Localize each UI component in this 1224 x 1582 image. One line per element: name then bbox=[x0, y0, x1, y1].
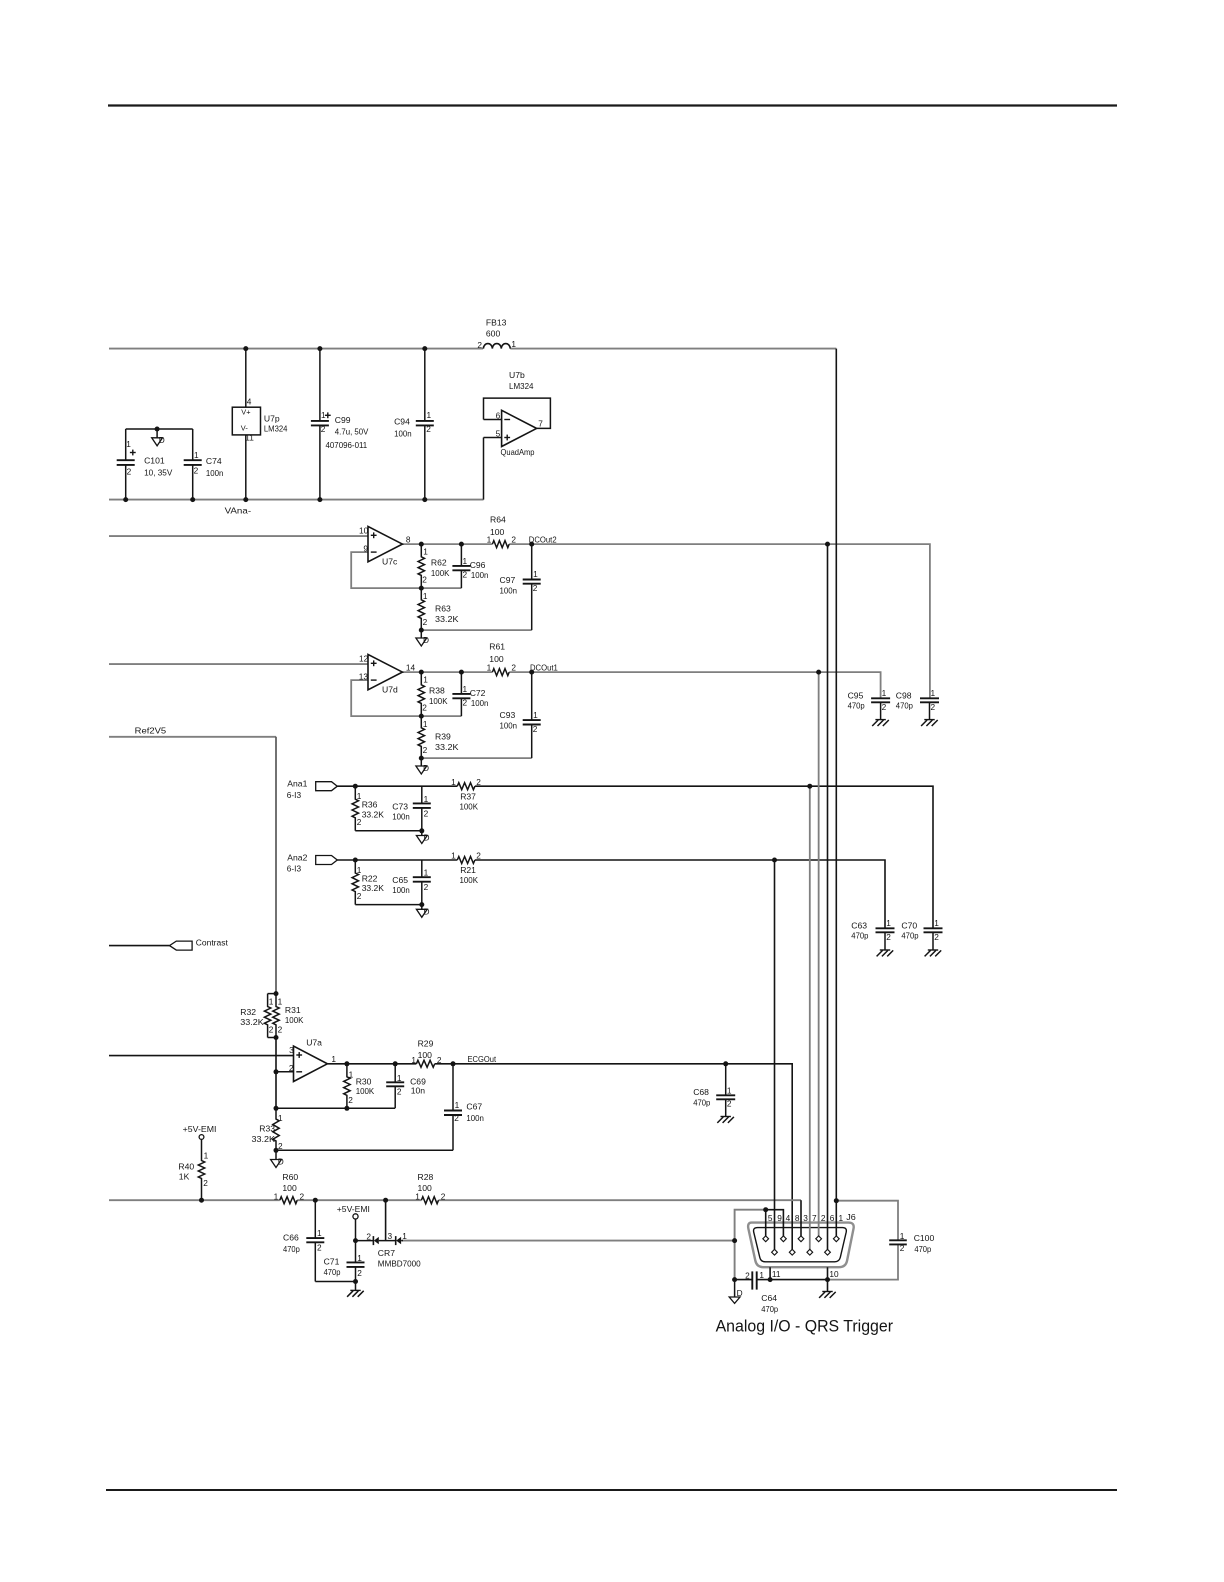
svg-text:33.2K: 33.2K bbox=[240, 1017, 264, 1027]
ground hatch pin10 bbox=[822, 1291, 832, 1293]
svg-text:C65: C65 bbox=[392, 875, 408, 885]
resistor R22 bbox=[352, 860, 358, 905]
resistor R31 bbox=[273, 994, 279, 1038]
capacitor C98 bbox=[929, 697, 931, 699]
svg-text:1: 1 bbox=[321, 410, 326, 420]
capacitor C71 bbox=[355, 1241, 357, 1263]
svg-text:1: 1 bbox=[269, 996, 274, 1006]
svg-text:2: 2 bbox=[821, 1213, 826, 1223]
svg-text:D: D bbox=[737, 1288, 743, 1298]
junction C100 branch bbox=[834, 1198, 839, 1203]
svg-text:J6: J6 bbox=[846, 1212, 856, 1222]
svg-text:1: 1 bbox=[886, 918, 891, 928]
junction D net pin5 bbox=[763, 1207, 768, 1212]
capacitor C96 bbox=[460, 544, 462, 566]
svg-text:C63: C63 bbox=[851, 920, 867, 930]
ground hatch C98 bbox=[924, 719, 934, 721]
svg-text:470p: 470p bbox=[283, 1244, 300, 1254]
svg-text:4.7u, 50V: 4.7u, 50V bbox=[335, 427, 369, 437]
power pins U7p bbox=[245, 349, 247, 408]
svg-text:QuadAmp: QuadAmp bbox=[501, 447, 535, 457]
svg-text:33.2K: 33.2K bbox=[435, 614, 459, 624]
svg-text:470p: 470p bbox=[914, 1244, 931, 1254]
wire Ana1 to pin7 bbox=[809, 786, 811, 1249]
svg-text:470p: 470p bbox=[693, 1098, 710, 1108]
svg-text:2: 2 bbox=[934, 932, 939, 942]
svg-text:1: 1 bbox=[451, 777, 456, 787]
svg-text:C94: C94 bbox=[394, 417, 410, 427]
wire R28 to pin3 bbox=[800, 1200, 802, 1236]
svg-text:U7d: U7d bbox=[382, 685, 398, 695]
svg-text:2: 2 bbox=[463, 569, 468, 579]
junction VAna C101 bbox=[123, 497, 128, 502]
svg-text:470p: 470p bbox=[848, 701, 865, 711]
svg-text:C73: C73 bbox=[392, 801, 408, 811]
svg-text:V-: V- bbox=[241, 424, 249, 433]
svg-text:Contrast: Contrast bbox=[196, 937, 229, 947]
resistor R39 bbox=[418, 716, 424, 758]
wire net D to pin4 bbox=[766, 1210, 784, 1236]
ground hatch C68 bbox=[721, 1116, 731, 1118]
svg-text:2: 2 bbox=[423, 617, 428, 627]
junction rail C99 bbox=[317, 346, 322, 351]
resistor R63 bbox=[418, 588, 424, 630]
wire CR7 to J6 bbox=[402, 1240, 735, 1242]
svg-text:8: 8 bbox=[795, 1213, 800, 1223]
svg-text:R64: R64 bbox=[490, 515, 506, 525]
ground D at R39 bbox=[420, 758, 422, 766]
svg-text:V+: V+ bbox=[241, 407, 250, 416]
svg-text:R28: R28 bbox=[418, 1172, 434, 1182]
svg-text:1: 1 bbox=[533, 569, 538, 579]
svg-text:100K: 100K bbox=[429, 696, 448, 706]
svg-text:470p: 470p bbox=[901, 931, 918, 941]
wire U7c feedback bbox=[351, 552, 461, 588]
svg-text:10: 10 bbox=[829, 1269, 839, 1279]
svg-text:1: 1 bbox=[727, 1085, 732, 1095]
svg-text:7: 7 bbox=[812, 1213, 817, 1223]
svg-text:2: 2 bbox=[300, 1191, 305, 1201]
wire pin10 stub bbox=[827, 1267, 829, 1279]
svg-text:1: 1 bbox=[204, 1151, 209, 1161]
svg-text:3: 3 bbox=[803, 1213, 808, 1223]
port Ana2 bbox=[316, 856, 338, 865]
svg-text:C72: C72 bbox=[470, 688, 486, 698]
resistor R40 bbox=[198, 1139, 204, 1200]
svg-text:2: 2 bbox=[727, 1099, 732, 1109]
junction R22 top bbox=[353, 858, 358, 863]
svg-text:D: D bbox=[424, 833, 430, 843]
capacitor C70 bbox=[932, 927, 934, 930]
svg-text:2: 2 bbox=[533, 724, 538, 734]
svg-text:Ana2: Ana2 bbox=[287, 853, 307, 863]
junction R40 bottom bbox=[199, 1198, 204, 1203]
svg-text:Ana1: Ana1 bbox=[287, 779, 307, 789]
wire U7d feedback bbox=[351, 680, 461, 716]
svg-text:2: 2 bbox=[477, 340, 482, 350]
svg-text:C99: C99 bbox=[335, 415, 351, 425]
svg-text:2: 2 bbox=[426, 424, 431, 434]
resistor R32 bbox=[268, 993, 276, 995]
resistor R38 bbox=[418, 672, 424, 716]
junction rail U7p bbox=[243, 346, 248, 351]
resistor R61 bbox=[492, 669, 509, 676]
junction R63 bottom bbox=[419, 628, 424, 633]
svg-text:R38: R38 bbox=[429, 686, 445, 696]
svg-text:1: 1 bbox=[455, 1100, 460, 1110]
svg-text:2: 2 bbox=[454, 1113, 459, 1123]
junction rail C94 bbox=[422, 346, 427, 351]
svg-text:Analog I/O - QRS Trigger: Analog I/O - QRS Trigger bbox=[716, 1317, 894, 1336]
capacitor C95 bbox=[880, 697, 882, 699]
ground hatch C70 bbox=[928, 949, 938, 951]
ground D at C101 bbox=[156, 429, 158, 438]
svg-text:1: 1 bbox=[349, 1070, 354, 1080]
wire R33-C67 link bbox=[276, 1149, 453, 1151]
svg-text:100: 100 bbox=[418, 1183, 433, 1193]
wire pin11 stub bbox=[769, 1267, 771, 1279]
wire C100 branch bbox=[836, 1201, 898, 1241]
svg-text:100n: 100n bbox=[471, 698, 489, 708]
svg-text:R32: R32 bbox=[240, 1007, 256, 1017]
svg-text:2: 2 bbox=[437, 1055, 442, 1065]
wire U7d + input bbox=[109, 663, 368, 665]
junction C97 top bbox=[529, 542, 534, 547]
wire U7a feedback bbox=[276, 1107, 395, 1109]
capacitor C66 bbox=[314, 1200, 316, 1238]
wire Ref2V5 bbox=[109, 736, 276, 738]
svg-text:11: 11 bbox=[772, 1269, 781, 1279]
svg-text:R61: R61 bbox=[489, 642, 505, 652]
op-amp U7b bbox=[484, 419, 502, 421]
svg-text:1: 1 bbox=[533, 710, 538, 720]
ground hatch C63 bbox=[880, 949, 890, 951]
svg-text:R22: R22 bbox=[362, 873, 378, 883]
svg-text:6-I3: 6-I3 bbox=[287, 864, 302, 874]
svg-text:12: 12 bbox=[359, 653, 369, 663]
junction CR7 bus bbox=[383, 1198, 388, 1203]
svg-text:100: 100 bbox=[490, 527, 505, 537]
connector J6 pins bbox=[763, 1236, 769, 1242]
svg-text:100K: 100K bbox=[460, 801, 479, 811]
svg-text:C95: C95 bbox=[848, 690, 864, 700]
svg-text:33.2K: 33.2K bbox=[362, 809, 385, 819]
wire U7c R63 bottom bbox=[421, 629, 531, 631]
svg-text:100K: 100K bbox=[356, 1086, 375, 1096]
ground D at C73 bbox=[421, 831, 423, 836]
svg-text:2: 2 bbox=[127, 466, 132, 476]
wire R36-C73 link bbox=[355, 830, 422, 832]
svg-text:R63: R63 bbox=[435, 604, 451, 614]
junction Ana1 bus bbox=[807, 784, 812, 789]
svg-text:100: 100 bbox=[418, 1050, 433, 1060]
svg-text:VAna-: VAna- bbox=[225, 506, 252, 516]
junction R36 top bbox=[353, 784, 358, 789]
svg-text:1: 1 bbox=[900, 1231, 905, 1241]
resistor R37 bbox=[457, 783, 475, 790]
svg-text:100n: 100n bbox=[392, 885, 410, 895]
svg-text:D: D bbox=[424, 906, 430, 916]
svg-text:100n: 100n bbox=[500, 585, 518, 595]
svg-text:MMBD7000: MMBD7000 bbox=[378, 1259, 421, 1269]
junction R31 bottom bbox=[274, 1035, 279, 1040]
svg-text:8: 8 bbox=[406, 534, 411, 544]
resistor R36 bbox=[352, 786, 358, 831]
svg-text:2: 2 bbox=[194, 465, 199, 475]
svg-text:U7b: U7b bbox=[509, 370, 525, 380]
svg-text:4: 4 bbox=[247, 396, 252, 406]
svg-text:10: 10 bbox=[359, 525, 369, 535]
svg-text:3: 3 bbox=[388, 1231, 393, 1241]
svg-text:1: 1 bbox=[931, 688, 936, 698]
svg-text:1: 1 bbox=[357, 1253, 362, 1263]
svg-text:9: 9 bbox=[777, 1213, 782, 1223]
junction R33 bottom bbox=[274, 1148, 279, 1153]
port Contrast bbox=[170, 941, 193, 950]
svg-text:6: 6 bbox=[830, 1213, 835, 1223]
wire net D to pin5 bbox=[765, 1210, 767, 1236]
svg-text:2: 2 bbox=[424, 882, 429, 892]
svg-text:1: 1 bbox=[274, 1191, 279, 1201]
svg-text:R30: R30 bbox=[356, 1077, 372, 1087]
svg-text:C98: C98 bbox=[896, 690, 912, 700]
svg-text:DCOut1: DCOut1 bbox=[530, 663, 558, 673]
svg-text:33.2K: 33.2K bbox=[435, 742, 459, 752]
junction VAna C94 bbox=[422, 497, 427, 502]
svg-text:D: D bbox=[423, 635, 429, 645]
capacitor C99 bbox=[319, 349, 321, 421]
svg-text:2: 2 bbox=[278, 1141, 283, 1151]
svg-text:407096-011: 407096-011 bbox=[326, 440, 368, 450]
svg-text:2: 2 bbox=[317, 1243, 322, 1253]
svg-text:C70: C70 bbox=[901, 920, 917, 930]
capacitor C65 bbox=[421, 860, 423, 877]
svg-text:1: 1 bbox=[487, 663, 492, 673]
wire +5V bus bottom bbox=[109, 1199, 280, 1201]
wire ECGOut net bbox=[327, 1063, 416, 1065]
svg-text:100: 100 bbox=[489, 654, 504, 664]
svg-text:R29: R29 bbox=[418, 1039, 434, 1049]
resistor R33 bbox=[273, 1108, 279, 1150]
svg-text:+5V-EMI: +5V-EMI bbox=[183, 1124, 217, 1134]
wire DCOut1 to pin2 bbox=[818, 672, 820, 1236]
svg-text:11: 11 bbox=[245, 433, 254, 443]
svg-text:1: 1 bbox=[423, 675, 428, 685]
junction C96 top bbox=[459, 542, 464, 547]
ground D at C65 bbox=[421, 905, 423, 910]
svg-text:100: 100 bbox=[282, 1183, 297, 1193]
svg-text:FB13: FB13 bbox=[486, 318, 507, 328]
ground D at R63 bbox=[420, 630, 422, 638]
svg-text:9: 9 bbox=[363, 543, 368, 553]
svg-text:1: 1 bbox=[126, 439, 131, 449]
svg-text:600: 600 bbox=[486, 329, 501, 339]
svg-text:C64: C64 bbox=[761, 1293, 777, 1303]
svg-text:3: 3 bbox=[289, 1045, 294, 1055]
junction CR7 D net bbox=[732, 1238, 737, 1243]
svg-text:C71: C71 bbox=[324, 1257, 340, 1267]
svg-text:1: 1 bbox=[397, 1073, 402, 1083]
svg-text:D: D bbox=[278, 1157, 284, 1167]
svg-text:2: 2 bbox=[422, 575, 427, 585]
svg-text:D: D bbox=[159, 435, 165, 445]
svg-text:C67: C67 bbox=[466, 1101, 482, 1111]
wire VAna- rail bbox=[109, 499, 484, 501]
resistor R28 bbox=[421, 1197, 438, 1204]
wire Ana2 net bbox=[337, 859, 457, 861]
ground hatch C95 bbox=[875, 719, 885, 721]
svg-text:1: 1 bbox=[317, 1228, 322, 1238]
svg-text:6: 6 bbox=[496, 410, 501, 420]
junction C68 top bbox=[723, 1061, 728, 1066]
svg-text:100K: 100K bbox=[460, 875, 479, 885]
svg-text:1: 1 bbox=[423, 591, 428, 601]
svg-text:+5V-EMI: +5V-EMI bbox=[337, 1204, 370, 1214]
junction R39 bottom bbox=[419, 756, 424, 761]
svg-text:2: 2 bbox=[931, 702, 936, 712]
resistor R62 bbox=[418, 544, 424, 588]
svg-text:C100: C100 bbox=[914, 1233, 935, 1243]
junction R38 bottom bbox=[419, 714, 424, 719]
svg-text:2: 2 bbox=[348, 1095, 353, 1105]
junction R31 top bbox=[274, 991, 279, 996]
svg-text:1: 1 bbox=[194, 450, 199, 460]
junction R62 bottom bbox=[419, 586, 424, 591]
svg-text:1: 1 bbox=[882, 688, 887, 698]
svg-text:Ref2V5: Ref2V5 bbox=[135, 726, 167, 736]
svg-text:1: 1 bbox=[463, 556, 468, 566]
svg-text:100n: 100n bbox=[392, 811, 410, 821]
svg-text:R31: R31 bbox=[285, 1005, 301, 1015]
svg-text:2: 2 bbox=[463, 697, 468, 707]
op-amp U7d bbox=[368, 654, 402, 689]
junction Ana2 bus bbox=[772, 858, 777, 863]
svg-text:2: 2 bbox=[422, 703, 427, 713]
junction C101 link bbox=[155, 427, 160, 432]
svg-text:100n: 100n bbox=[500, 721, 518, 731]
svg-text:1: 1 bbox=[511, 339, 516, 349]
junction R30 bottom bbox=[344, 1106, 349, 1111]
junction DCOut2 bus bbox=[825, 542, 830, 547]
svg-text:2: 2 bbox=[423, 745, 428, 755]
wire R31 to R33 bbox=[275, 1038, 277, 1109]
resistor R29 bbox=[416, 1060, 434, 1067]
ground hatch C71 bbox=[355, 1282, 357, 1291]
svg-text:1: 1 bbox=[331, 1054, 336, 1064]
wire ground bus C64 bbox=[735, 1279, 752, 1281]
svg-text:R62: R62 bbox=[431, 558, 447, 568]
svg-text:2: 2 bbox=[366, 1231, 371, 1241]
capacitor C74 bbox=[192, 429, 194, 460]
wire DCOut2 net bbox=[402, 543, 492, 545]
op-amp U7c bbox=[368, 526, 402, 561]
ground D at C64 bbox=[734, 1280, 736, 1297]
connector J6 shell bbox=[748, 1223, 854, 1268]
svg-text:R40: R40 bbox=[178, 1162, 194, 1172]
svg-text:13: 13 bbox=[359, 671, 369, 681]
wire U7d R39 bottom bbox=[421, 757, 531, 759]
svg-text:100n: 100n bbox=[466, 1113, 484, 1123]
svg-text:LM324: LM324 bbox=[264, 423, 288, 433]
wire VPos top rail bbox=[109, 348, 483, 350]
svg-text:2: 2 bbox=[278, 1025, 283, 1035]
svg-text:C97: C97 bbox=[500, 575, 516, 585]
capacitor C97 bbox=[531, 544, 533, 579]
junction VAna C99 bbox=[317, 497, 322, 502]
svg-text:1: 1 bbox=[424, 868, 429, 878]
junction feedback left bbox=[274, 1106, 279, 1111]
diode CR7 bbox=[385, 1200, 387, 1240]
svg-text:2: 2 bbox=[269, 1025, 274, 1035]
op-amp U7a bbox=[276, 1071, 294, 1073]
junction R62 top bbox=[419, 542, 424, 547]
svg-text:U7c: U7c bbox=[382, 557, 398, 567]
svg-text:10n: 10n bbox=[411, 1086, 426, 1096]
junction R38 top bbox=[419, 670, 424, 675]
svg-text:14: 14 bbox=[406, 662, 416, 672]
svg-text:LM324: LM324 bbox=[509, 381, 534, 391]
svg-text:470p: 470p bbox=[851, 931, 868, 941]
junction U7a minus bbox=[274, 1069, 279, 1074]
svg-text:100n: 100n bbox=[471, 570, 489, 580]
svg-text:5: 5 bbox=[768, 1213, 773, 1223]
svg-text:1: 1 bbox=[424, 794, 429, 804]
resistor R64 bbox=[492, 541, 509, 548]
wire VPos to pin1 bbox=[835, 349, 837, 1236]
wire Ana2 to pin9 bbox=[774, 860, 776, 1249]
junction C72 top bbox=[459, 670, 464, 675]
resistor R30 bbox=[344, 1064, 350, 1109]
capacitor C72 bbox=[460, 672, 462, 694]
junction C66 top bbox=[313, 1198, 318, 1203]
svg-text:2: 2 bbox=[900, 1243, 905, 1253]
svg-text:470p: 470p bbox=[761, 1304, 778, 1314]
resistor R21 bbox=[457, 857, 475, 864]
ferrite bead FB13 bbox=[483, 344, 510, 349]
svg-text:1K: 1K bbox=[179, 1172, 190, 1182]
svg-text:100K: 100K bbox=[431, 568, 450, 578]
svg-text:C96: C96 bbox=[470, 560, 486, 570]
svg-text:1: 1 bbox=[278, 1113, 283, 1123]
svg-text:U7a: U7a bbox=[306, 1038, 322, 1048]
svg-text:2: 2 bbox=[476, 851, 481, 861]
capacitor C73 bbox=[421, 786, 423, 803]
svg-text:2: 2 bbox=[533, 583, 538, 593]
junction CR7 anode bbox=[353, 1238, 358, 1243]
capacitor C69 bbox=[394, 1064, 396, 1083]
svg-text:R37: R37 bbox=[460, 791, 476, 801]
svg-text:C68: C68 bbox=[693, 1087, 709, 1097]
ground D at R33 bbox=[275, 1150, 277, 1159]
junction pin10 bbox=[825, 1277, 830, 1282]
svg-text:R33: R33 bbox=[259, 1124, 275, 1134]
svg-text:2: 2 bbox=[424, 808, 429, 818]
capacitor C101 bbox=[125, 429, 127, 460]
svg-text:2: 2 bbox=[886, 932, 891, 942]
svg-text:6-I3: 6-I3 bbox=[287, 790, 302, 800]
capacitor C63 bbox=[884, 927, 886, 930]
wire Contrast bbox=[109, 945, 170, 947]
svg-text:D: D bbox=[423, 763, 429, 773]
svg-text:10, 35V: 10, 35V bbox=[144, 468, 172, 478]
svg-text:CR7: CR7 bbox=[378, 1248, 395, 1258]
junction R30 top bbox=[344, 1061, 349, 1066]
svg-text:1: 1 bbox=[415, 1191, 420, 1201]
svg-text:1: 1 bbox=[278, 996, 283, 1006]
svg-text:C93: C93 bbox=[500, 710, 516, 720]
svg-text:2: 2 bbox=[289, 1063, 294, 1073]
svg-text:2: 2 bbox=[441, 1191, 446, 1201]
